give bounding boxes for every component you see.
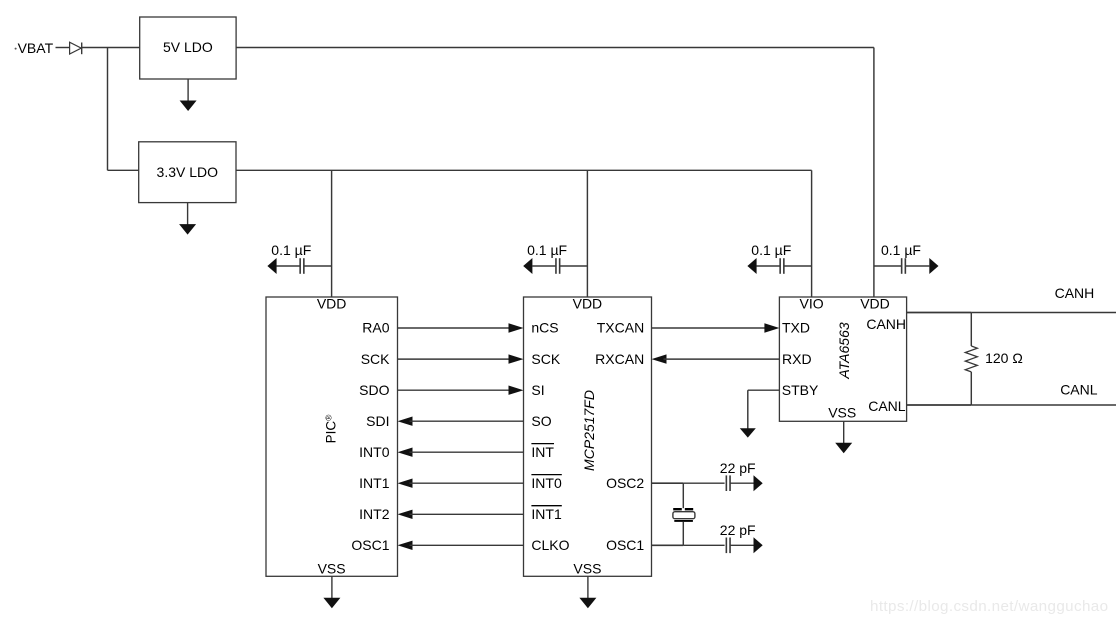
svg-text:CANL: CANL [868, 398, 906, 414]
capacitor 0.1 µF (MCP2517FD VDD decoupling) [523, 242, 587, 274]
svg-text:VDD: VDD [317, 296, 347, 312]
svg-text:TXD: TXD [782, 320, 810, 336]
ground (ATA VSS) [835, 421, 852, 453]
svg-text:VSS: VSS [828, 405, 856, 421]
svg-text:CANH: CANH [1055, 285, 1095, 301]
svg-text:VDD: VDD [573, 296, 603, 312]
CAN controller U2 MCP2517FD [524, 296, 652, 577]
ground (MCP VSS) [579, 576, 596, 608]
crystal Y1 [673, 509, 695, 521]
ground (PIC VSS) [323, 576, 340, 608]
microcontroller U1 PIC [266, 296, 398, 577]
svg-text:SO: SO [531, 413, 551, 429]
svg-text:INT1: INT1 [531, 506, 562, 522]
svg-text:0.1 µF: 0.1 µF [527, 242, 567, 258]
ground [179, 203, 196, 235]
svg-text:VIO: VIO [800, 296, 824, 312]
node VBAT [15, 40, 54, 56]
capacitor 0.1 µF (ATA6563 VDD decoupling) [874, 242, 939, 274]
svg-text:VSS: VSS [573, 561, 601, 577]
svg-text:nCS: nCS [531, 320, 558, 336]
wire to PIC VDD [331, 170, 333, 297]
svg-text:INT0: INT0 [531, 475, 562, 491]
capacitor 22 pF (OSC2) [720, 460, 763, 491]
svg-text:OSC2: OSC2 [606, 475, 644, 491]
resistor R1 120 Ω [965, 313, 1023, 406]
svg-text:OSC1: OSC1 [351, 537, 389, 553]
diode D1 [70, 42, 82, 54]
capacitor 0.1 µF (ATA6563 VIO decoupling) [747, 242, 811, 274]
svg-text:INT2: INT2 [359, 506, 390, 522]
svg-text:3.3V LDO: 3.3V LDO [157, 164, 219, 180]
svg-text:CANL: CANL [1060, 381, 1098, 397]
wire [82, 47, 140, 49]
wire INT1 to INT2 [398, 510, 524, 519]
wire [682, 483, 684, 508]
svg-text:TXCAN: TXCAN [597, 320, 644, 336]
wire OSC2 [652, 482, 725, 484]
wire SCK to SCK [398, 354, 524, 363]
wire CLKO to OSC1 [398, 541, 524, 550]
svg-text:CANH: CANH [866, 316, 906, 332]
svg-text:ATA6563: ATA6563 [836, 322, 852, 380]
wire SO to SDI [398, 417, 524, 426]
svg-text:VBAT: VBAT [18, 40, 54, 56]
wire [682, 522, 684, 546]
regulator 3.3V LDO [139, 142, 236, 203]
svg-text:5V LDO: 5V LDO [163, 39, 213, 55]
CAN transceiver U3 ATA6563 [779, 296, 906, 422]
svg-text:0.1 µF: 0.1 µF [881, 242, 921, 258]
wire RXD to RXCAN [652, 354, 780, 363]
svg-text:SDI: SDI [366, 413, 389, 429]
svg-text:VDD: VDD [860, 296, 890, 312]
wire VBAT to 3.3V LDO [108, 48, 139, 171]
svg-text:MCP2517FD: MCP2517FD [581, 390, 597, 471]
svg-text:22 pF: 22 pF [720, 460, 756, 476]
regulator 5V LDO [140, 17, 236, 79]
svg-text:VSS: VSS [318, 561, 346, 577]
wire OSC1 [652, 544, 725, 546]
svg-text:OSC1: OSC1 [606, 537, 644, 553]
svg-text:CLKO: CLKO [531, 537, 569, 553]
svg-text:SCK: SCK [531, 351, 560, 367]
svg-text:INT1: INT1 [359, 475, 390, 491]
svg-text:RXD: RXD [782, 351, 812, 367]
wire RA0 to nCS [398, 323, 524, 332]
wire TXCAN to TXD [652, 323, 780, 332]
svg-text:RXCAN: RXCAN [595, 351, 644, 367]
svg-text:0.1 µF: 0.1 µF [271, 242, 311, 258]
wire to MCP VDD [586, 170, 588, 297]
svg-text:SCK: SCK [361, 351, 390, 367]
ground (STBY) [740, 428, 756, 437]
svg-text:SDO: SDO [359, 382, 389, 398]
svg-text:INT0: INT0 [359, 444, 390, 460]
svg-text:0.1 µF: 0.1 µF [751, 242, 791, 258]
wire to ATA VIO [811, 170, 813, 297]
svg-text:22 pF: 22 pF [720, 522, 756, 538]
wire CANH [907, 312, 1116, 314]
wire STBY [748, 390, 780, 428]
wire SDO to SI [398, 386, 524, 395]
svg-text:RA0: RA0 [362, 320, 389, 336]
wire [56, 47, 70, 49]
wire INT0 to INT1 [398, 479, 524, 488]
capacitor 22 pF (OSC1) [720, 522, 763, 553]
svg-text:SI: SI [531, 382, 544, 398]
ground [180, 79, 197, 111]
wire INT to INT0 [398, 448, 524, 457]
svg-text:INT: INT [531, 444, 554, 460]
wire 5V rail [236, 48, 874, 298]
svg-text:STBY: STBY [782, 382, 819, 398]
wire 3.3V rail [236, 169, 812, 171]
svg-text:https://blog.csdn.net/wangguch: https://blog.csdn.net/wangguchao [870, 598, 1108, 615]
svg-text:120 Ω: 120 Ω [985, 350, 1023, 366]
wire CANL [907, 404, 1116, 406]
capacitor 0.1 µF (PIC VDD decoupling) [267, 242, 331, 274]
